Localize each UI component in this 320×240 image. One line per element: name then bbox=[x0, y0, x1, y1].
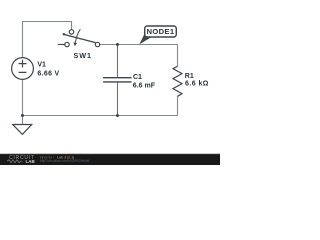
svg-text:R1: R1 bbox=[185, 73, 194, 80]
wire: V1 bottom to ground junction bbox=[22, 80, 24, 116]
switch right (common) terminal bbox=[95, 42, 99, 46]
switch blade pivot dot bbox=[63, 33, 65, 35]
svg-text:NODE1: NODE1 bbox=[147, 27, 174, 36]
svg-text:6.6 mF: 6.6 mF bbox=[133, 83, 156, 90]
resistor R1 bbox=[173, 66, 182, 96]
svg-text:6.66 V: 6.66 V bbox=[37, 71, 59, 78]
wire: right branch down to resistor bbox=[177, 45, 179, 67]
NODE1 flag box bbox=[145, 26, 177, 37]
capacitor C1 bbox=[103, 78, 131, 82]
wire: capacitor top stub bbox=[117, 45, 119, 78]
node junction dot at capacitor bottom bbox=[116, 114, 119, 117]
switch SW1 bbox=[58, 30, 100, 47]
switch top terminal bbox=[69, 30, 73, 34]
svg-text:http://circuitlab.com/c62b5629: http://circuitlab.com/c62b5629e6d6 bbox=[40, 159, 90, 163]
node junction dot at capacitor tee bbox=[116, 43, 119, 46]
wire: bottom rail bbox=[23, 115, 178, 117]
footer bar bbox=[0, 153, 220, 156]
switch actuation arrow bbox=[75, 29, 80, 43]
NODE1 flag pointer bbox=[139, 34, 153, 45]
svg-text:SW1: SW1 bbox=[74, 51, 92, 60]
switch left throw terminal bbox=[58, 44, 65, 46]
ground bbox=[13, 125, 32, 135]
wire: capacitor bottom stub bbox=[117, 83, 119, 116]
wire: ground stub bbox=[22, 116, 24, 125]
svg-text:V1: V1 bbox=[37, 61, 46, 68]
wire: resistor bottom to bottom rail bbox=[177, 96, 179, 115]
node junction dot at ground bbox=[21, 114, 24, 117]
svg-text:C1: C1 bbox=[133, 74, 142, 81]
wire: top-left run from V1 top to switch top bbox=[23, 22, 72, 58]
switch blade bbox=[63, 34, 95, 42]
svg-text:LAB: LAB bbox=[26, 159, 36, 164]
wire: switch right terminal to right branch bbox=[100, 44, 178, 46]
voltage source V1 bbox=[12, 58, 34, 80]
svg-text:6.6 kΩ: 6.6 kΩ bbox=[185, 81, 209, 88]
CircuitLab logo zigzag bbox=[7, 160, 23, 163]
